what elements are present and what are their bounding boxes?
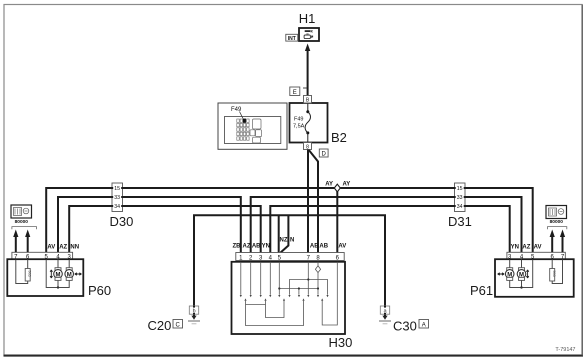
P61 motor M1 (left/right) <box>498 260 514 281</box>
svg-text:b: b <box>193 309 196 315</box>
svg-text:B2: B2 <box>331 130 347 145</box>
upper link bar 2 <box>279 289 318 295</box>
wire N to H30 pin5 <box>281 215 289 252</box>
H30 contact arrowheads upper row <box>240 295 329 297</box>
upper link bar 1 <box>290 280 328 295</box>
location box A <box>419 320 429 329</box>
bus wire 33 left <box>58 197 241 253</box>
svg-text:NN: NN <box>70 244 79 250</box>
svg-text:NZ: NZ <box>280 238 288 244</box>
splice diamond AY <box>334 184 340 192</box>
P60 motor M1 (up/down) <box>50 260 62 281</box>
lower stub pin8 side <box>321 301 323 308</box>
svg-text:AY: AY <box>343 182 351 188</box>
P60 defroster resistor <box>16 260 32 284</box>
fuse F49 symbol <box>305 103 310 143</box>
svg-text:AV: AV <box>338 244 346 250</box>
mirror unit P60 <box>7 252 83 296</box>
P61 defroster resistor <box>550 260 563 284</box>
H30 contact arrowheads lower row <box>244 298 323 300</box>
INT qualifier box <box>286 34 298 42</box>
mirror switch H30 <box>232 253 346 335</box>
ground wire N <box>194 215 385 316</box>
P61 motor M2 (up/down) <box>517 260 529 281</box>
wire B2 pin B to H1 with arrow <box>303 44 310 96</box>
svg-text:7,5A: 7,5A <box>293 124 305 130</box>
P61 motor common wire <box>510 260 533 289</box>
svg-text:E: E <box>293 90 297 96</box>
relay shapes <box>250 119 262 143</box>
cross-reference icon left (heated mirror circuit) <box>11 205 32 225</box>
mirror unit P61 <box>495 252 574 297</box>
connector D30 box <box>112 183 123 212</box>
bus wire 34 right <box>270 206 509 253</box>
svg-text:D: D <box>322 152 327 158</box>
svg-text:80000: 80000 <box>550 219 564 225</box>
svg-text:A: A <box>422 322 426 328</box>
svg-text:YN: YN <box>262 244 270 250</box>
bus wire AY/AV 15 <box>46 188 533 253</box>
ground point C30 <box>379 306 391 324</box>
P60 arrows to defroster circuit <box>12 227 37 253</box>
cross-reference icon right (heated mirror circuit) <box>546 206 567 225</box>
pin stems <box>240 262 242 295</box>
lower bridge left <box>246 301 285 318</box>
bus wire 34 left <box>69 206 261 253</box>
svg-text:AB: AB <box>310 244 319 250</box>
svg-text:15: 15 <box>114 186 120 192</box>
instrument cluster H1 <box>299 28 319 41</box>
P61 arrows to defroster circuit <box>548 227 567 253</box>
svg-text:33: 33 <box>114 195 120 201</box>
svg-text:C: C <box>176 322 181 328</box>
svg-text:AZ: AZ <box>522 244 530 250</box>
svg-text:33: 33 <box>457 195 463 201</box>
pin 8 of B2 <box>304 143 312 151</box>
diode symbol on pin 8 <box>315 266 320 273</box>
wire B2 pin8 to H30 pin7 <box>307 150 309 253</box>
wire B2 pin8 diagonal to H30 pin8 <box>309 150 318 253</box>
svg-text:AZ: AZ <box>243 244 251 250</box>
svg-text:D31: D31 <box>448 214 472 229</box>
wire N to H30 pin5 straight <box>278 215 280 252</box>
fuse F49 highlighted cell <box>243 119 246 123</box>
svg-text:H1: H1 <box>299 11 316 26</box>
svg-text:50Ω: 50Ω <box>552 271 556 278</box>
svg-text:34: 34 <box>114 204 120 210</box>
svg-text:80000: 80000 <box>15 219 29 225</box>
svg-text:34: 34 <box>457 204 463 210</box>
fuse grid <box>237 119 249 140</box>
svg-text:50Ω: 50Ω <box>27 271 31 278</box>
connector D31 box <box>455 183 466 212</box>
svg-text:F49: F49 <box>231 107 242 113</box>
svg-text:AV: AV <box>534 244 542 250</box>
node E callout <box>290 87 300 96</box>
svg-text:P61: P61 <box>470 283 493 298</box>
svg-text:AV: AV <box>47 244 55 250</box>
svg-text:C20: C20 <box>148 318 172 333</box>
svg-text:a: a <box>384 309 387 315</box>
svg-text:P60: P60 <box>88 283 111 298</box>
svg-text:D30: D30 <box>110 214 134 229</box>
ground point C20 <box>188 306 200 324</box>
node D callout <box>319 149 328 158</box>
svg-text:T-79147: T-79147 <box>555 347 575 353</box>
svg-text:F49: F49 <box>294 117 303 123</box>
bus wire 33 right <box>251 197 522 253</box>
location box C <box>173 320 183 329</box>
svg-text:AZ: AZ <box>59 244 67 250</box>
svg-text:YN: YN <box>511 244 519 250</box>
svg-text:AY: AY <box>325 182 333 188</box>
fusebox detail F49 <box>218 103 287 149</box>
connector D31 pin numbers <box>456 184 464 210</box>
svg-text:AB: AB <box>319 244 328 250</box>
H30 internal switch network <box>241 262 337 326</box>
lower U long <box>246 301 304 326</box>
svg-text:N: N <box>290 238 294 244</box>
H30 junction dots <box>307 278 309 280</box>
svg-text:ZB: ZB <box>233 244 242 250</box>
svg-text:15: 15 <box>457 186 463 192</box>
pin B of B2 <box>304 96 312 104</box>
connector D30 pin numbers <box>113 184 121 210</box>
fusebox B2 <box>290 103 328 143</box>
svg-text:H30: H30 <box>329 335 353 350</box>
svg-text:INT: INT <box>288 36 296 42</box>
svg-text:AB: AB <box>252 244 261 250</box>
svg-text:C30: C30 <box>393 319 417 334</box>
P60 motor common wire <box>46 260 69 289</box>
wire AV: H30 pin6 to splice <box>336 188 338 253</box>
P60 motor M2 (left/right) <box>65 260 82 281</box>
